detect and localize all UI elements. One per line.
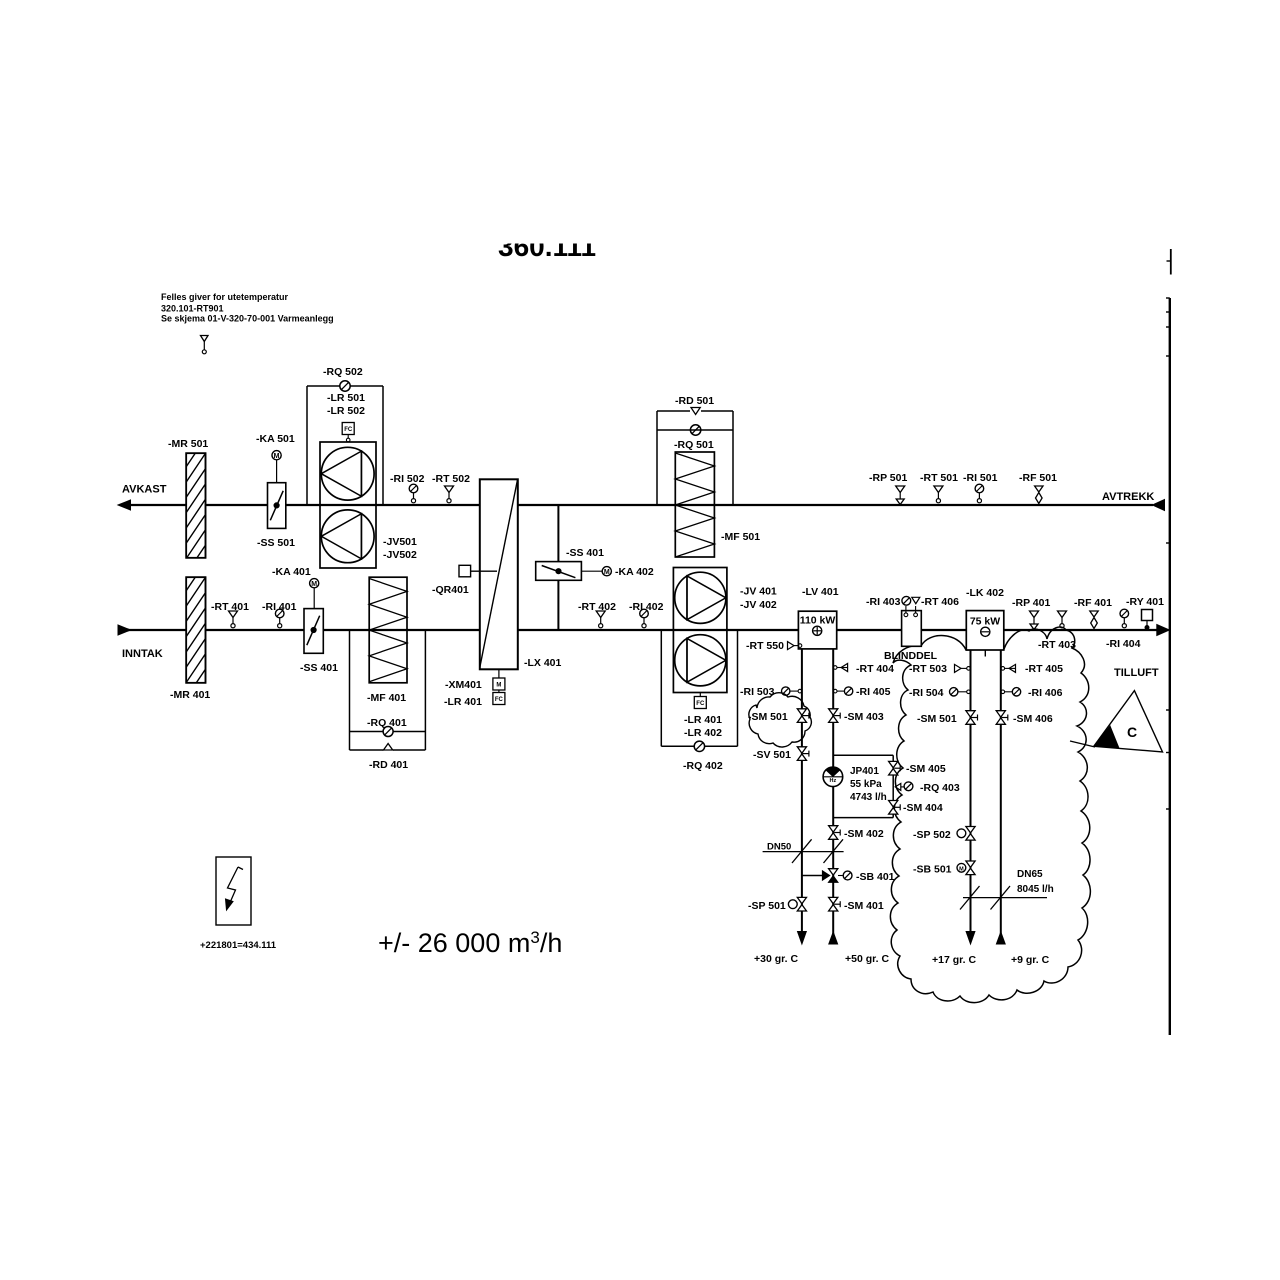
outdoor temperature sensor RT901 (201, 336, 209, 354)
sensor RI405 (833, 687, 852, 695)
damper SS501 (268, 483, 286, 529)
pump JP401 (823, 767, 843, 787)
cooling coil LK402 (966, 611, 1004, 657)
svg-text:-SV 501: -SV 501 (753, 749, 791, 761)
svg-text:-MR 401: -MR 401 (170, 689, 210, 701)
motor valve SB501 (957, 861, 975, 875)
sensor RI404 (1120, 609, 1129, 628)
sensor RT406 (912, 597, 920, 603)
svg-text:-RI 503: -RI 503 (740, 686, 775, 698)
svg-text:-RI 406: -RI 406 (1028, 687, 1063, 699)
label SM501 cooler (917, 713, 957, 725)
svg-text:-KA 402: -KA 402 (615, 566, 654, 578)
svg-text:-KA 501: -KA 501 (256, 433, 295, 445)
svg-text:-SM 404: -SM 404 (903, 802, 943, 814)
sensor RT502 (445, 486, 454, 503)
label LR502 (327, 405, 365, 417)
label JV402 (740, 599, 777, 611)
svg-text:-RT 406: -RT 406 (921, 596, 959, 608)
svg-text:-RI 501: -RI 501 (963, 472, 998, 484)
label RP401 (1012, 597, 1050, 609)
label RD401 (369, 759, 408, 771)
bypass wire (557, 505, 559, 630)
sensor RT404 (833, 664, 847, 672)
controller FC box (LR501/502) (342, 423, 354, 443)
label XM401 (445, 679, 482, 691)
sensor RT405 (1001, 664, 1016, 672)
svg-text:-LR 401: -LR 401 (444, 696, 482, 708)
quality sensor RQ501 (690, 425, 700, 435)
svg-text:-LK 402: -LK 402 (966, 587, 1004, 599)
svg-text:-RP 401: -RP 401 (1012, 597, 1050, 609)
label RT404 (856, 663, 894, 675)
label MF401 (367, 692, 406, 704)
label LR401 fans (684, 714, 722, 726)
svg-text:-RQ 403: -RQ 403 (920, 782, 960, 794)
control frame RD501 (657, 411, 733, 505)
label DN65 (1017, 869, 1043, 880)
fan JV401 (675, 572, 726, 623)
cloud around SM501 (749, 693, 812, 747)
label RI504 (909, 687, 944, 699)
label KA401 (272, 566, 311, 578)
label JV502 (383, 549, 417, 561)
svg-text:-SM 501: -SM 501 (917, 713, 957, 725)
flow arrow down +30 (798, 932, 807, 945)
svg-text:Felles giver for utetemperatur: Felles giver for utetemperatur (161, 292, 289, 302)
sensor RT501 (934, 486, 943, 503)
label RQ401 (367, 717, 407, 729)
svg-text:-LR 402: -LR 402 (684, 727, 722, 739)
sensor RQ403 (895, 782, 913, 791)
svg-text:-JV502: -JV502 (383, 549, 417, 561)
svg-text:+30 gr. C: +30 gr. C (754, 953, 798, 965)
svg-text:-MF 501: -MF 501 (721, 531, 760, 543)
svg-text:-SS 401: -SS 401 (300, 662, 338, 674)
sensor RF501 (1035, 486, 1043, 504)
label RI405 (856, 686, 891, 698)
svg-text:-SP 501: -SP 501 (748, 900, 786, 912)
filter MF401 (369, 577, 407, 683)
svg-text:M: M (604, 569, 610, 576)
valve SM501 cooler (966, 711, 978, 725)
label SP502 (913, 829, 951, 841)
actuator XM401 (493, 669, 505, 690)
valve SM404 (889, 801, 901, 815)
valve SM401 (829, 897, 841, 911)
svg-text:+17 gr. C: +17 gr. C (932, 954, 976, 966)
svg-text:-RT 404: -RT 404 (856, 663, 894, 675)
svg-text:-RT 405: -RT 405 (1025, 663, 1063, 675)
valve SM501 heater (797, 709, 809, 723)
label +9 gr. C (1011, 954, 1050, 966)
svg-text:-RT 402: -RT 402 (578, 601, 616, 613)
fan unit JV401/JV402 casing (673, 568, 727, 693)
svg-text:+50 gr. C: +50 gr. C (845, 953, 889, 965)
label RT406 (921, 596, 959, 608)
svg-text:-RT 503: -RT 503 (909, 663, 947, 675)
svg-text:-RQ 402: -RQ 402 (683, 760, 723, 772)
quality sensor RQ502 (340, 381, 350, 391)
label RI402 (629, 601, 664, 613)
label LX401 (524, 657, 562, 669)
AVTREKK arrow (1153, 500, 1165, 511)
label RI503 (740, 686, 775, 698)
label RI403 (866, 596, 901, 608)
svg-text:-RI 404: -RI 404 (1106, 638, 1141, 650)
label QR401 (432, 584, 469, 596)
label JV401 (740, 586, 777, 598)
svg-text:DN65: DN65 (1017, 869, 1043, 880)
label RQ403 (920, 782, 960, 794)
label LV401 (802, 586, 839, 598)
svg-text:FC: FC (344, 427, 353, 433)
svg-text:-RD 501: -RD 501 (675, 395, 714, 407)
label RQ502 (323, 366, 363, 378)
tap valve SP501 (788, 897, 806, 911)
svg-text:55 kPa: 55 kPa (850, 779, 882, 790)
valve SM406 (996, 711, 1008, 725)
svg-text:-RQ 502: -RQ 502 (323, 366, 363, 378)
INNTAK arrow (118, 625, 131, 635)
flow arrow up +9 (996, 932, 1005, 944)
flow arrow up +50 (829, 932, 838, 944)
svg-text:-RT 401: -RT 401 (211, 601, 249, 613)
svg-text:-RY 401: -RY 401 (1126, 596, 1164, 608)
label RI404 (1106, 638, 1141, 650)
svg-text:M: M (959, 866, 964, 872)
label INNTAK (122, 648, 163, 660)
label +221801=434.111 (200, 940, 277, 951)
svg-text:Hz: Hz (830, 778, 837, 784)
svg-text:320.101-RT901: 320.101-RT901 (161, 304, 224, 314)
label MR501 (168, 438, 208, 450)
pipe LK402 supply (970, 650, 972, 932)
label RI401 (262, 601, 297, 613)
label BLINDDEL (884, 650, 938, 662)
label LR401 (444, 696, 482, 708)
svg-text:-MR 501: -MR 501 (168, 438, 208, 450)
DN50 sizing line (763, 839, 844, 863)
wire cloud to C-symbol (1070, 741, 1095, 747)
svg-text:+221801=434.111: +221801=434.111 (200, 940, 277, 951)
heating coil LV401 (798, 611, 836, 649)
pressure relief RD501 (691, 408, 700, 415)
quality sensor RQ401 (383, 727, 393, 737)
svg-text:-LR 502: -LR 502 (327, 405, 365, 417)
svg-text:AVTREKK: AVTREKK (1102, 491, 1154, 503)
control system symbol C (1094, 691, 1163, 752)
pipe LV401 return (832, 649, 834, 944)
label SM501 heater (748, 711, 788, 723)
label JP401 (850, 766, 879, 777)
control frame RQ402 (661, 630, 737, 746)
label SB501 (913, 864, 952, 876)
svg-text:-RI 403: -RI 403 (866, 596, 901, 608)
label RT403 (1038, 639, 1076, 651)
label SM405 (906, 763, 946, 775)
label LR402 fans (684, 727, 722, 739)
label AVTREKK (1102, 491, 1154, 503)
svg-text:Se skjema 01-V-320-70-001 Varm: Se skjema 01-V-320-70-001 Varmeanlegg (161, 314, 334, 324)
label MF501 (721, 531, 760, 543)
sensor RI503 (782, 687, 802, 695)
label DN50 (767, 842, 791, 853)
svg-text:8045 l/h: 8045 l/h (1017, 884, 1054, 895)
label LR501 (327, 392, 365, 404)
label RQ402 (683, 760, 723, 772)
svg-text:FC: FC (696, 701, 705, 707)
label SB401 (856, 871, 895, 883)
svg-text:-SM 401: -SM 401 (844, 900, 884, 912)
valve SM402 (829, 826, 841, 840)
svg-text:-SM 405: -SM 405 (906, 763, 946, 775)
label +17 gr. C (932, 954, 976, 966)
TILLUFT arrow (1157, 625, 1170, 636)
svg-text:AVKAST: AVKAST (122, 484, 167, 496)
sensor RI403 (902, 596, 911, 605)
sensor RP501 (896, 486, 905, 505)
filter MF501 (675, 452, 714, 557)
svg-text:JP401: JP401 (850, 766, 879, 777)
DN65 sizing line (960, 886, 1047, 910)
label SM401 (844, 900, 884, 912)
label SS401 bypass (566, 547, 604, 559)
motor KA401 (310, 579, 319, 609)
sensor RI402 (640, 609, 649, 628)
svg-text:-SB 401: -SB 401 (856, 871, 895, 883)
svg-text:-RT 501: -RT 501 (920, 472, 958, 484)
damper MR501 (hatched) (184, 435, 208, 592)
sensor RT550 (788, 642, 802, 650)
sensor RT402 (596, 611, 605, 628)
sensor RI501 (975, 484, 984, 503)
svg-text:75 kW: 75 kW (970, 616, 1000, 628)
note: felles giver for utetemperatur (161, 292, 334, 324)
label RT550 (746, 640, 784, 652)
label 4743 l/h (850, 792, 887, 803)
svg-text:-RQ 401: -RQ 401 (367, 717, 407, 729)
svg-text:-RT 403: -RT 403 (1038, 639, 1076, 651)
svg-text:-RI 504: -RI 504 (909, 687, 944, 699)
svg-text:-SS 401: -SS 401 (566, 547, 604, 559)
valve SM405 (889, 761, 901, 775)
svg-text:-LR 401: -LR 401 (684, 714, 722, 726)
svg-text:-LV 401: -LV 401 (802, 586, 839, 598)
label KA402 (615, 566, 654, 578)
label SM403 (844, 711, 884, 723)
svg-text:M: M (496, 683, 501, 689)
svg-text:4743 l/h: 4743 l/h (850, 792, 887, 803)
label RI501 (963, 472, 998, 484)
label LK402 (966, 587, 1004, 599)
label RT502 (432, 473, 470, 485)
svg-text:-RI 401: -RI 401 (262, 601, 297, 613)
sensor RI504 (950, 688, 971, 696)
label SV501 (753, 749, 791, 761)
label SP501 (748, 900, 786, 912)
label RT405 (1025, 663, 1063, 675)
svg-text:-RI 502: -RI 502 (390, 473, 425, 485)
label RT501 (920, 472, 958, 484)
label MR401 (170, 689, 210, 701)
sensor RF401 (1090, 611, 1098, 629)
blind section BLINDDEL (902, 606, 922, 646)
label RT402 (578, 601, 616, 613)
svg-text:-KA 401: -KA 401 (272, 566, 311, 578)
label RY401 (1126, 596, 1164, 608)
svg-text:M: M (311, 581, 317, 588)
controller LR401 box (493, 690, 505, 705)
svg-text:-RD 401: -RD 401 (369, 759, 408, 771)
sensor QR401 (459, 565, 497, 577)
svg-text:-LR 501: -LR 501 (327, 392, 365, 404)
label SS401 inlet (300, 662, 338, 674)
svg-text:-SM 402: -SM 402 (844, 828, 884, 840)
label RQ501 (674, 439, 714, 451)
label +30 gr. C (754, 953, 798, 965)
title 360.111 (top-cropped) (470, 215, 650, 262)
svg-text:+9 gr. C: +9 gr. C (1011, 954, 1050, 966)
svg-text:-RF 501: -RF 501 (1019, 472, 1057, 484)
sensor RY401 (1142, 610, 1153, 630)
pipe LV401 supply (801, 649, 803, 932)
sensor RT403 (1058, 611, 1067, 628)
svg-text:-SM 406: -SM 406 (1013, 713, 1053, 725)
svg-text:-RP 501: -RP 501 (869, 472, 907, 484)
fan JV501 (321, 447, 374, 500)
sensor RT401 (229, 611, 238, 628)
svg-text:-SM 501: -SM 501 (748, 711, 788, 723)
svg-text:-JV 402: -JV 402 (740, 599, 777, 611)
label KA501 (256, 433, 295, 445)
fan unit JV501/JV502 casing (320, 442, 376, 568)
label RF501 (1019, 472, 1057, 484)
label AVKAST (122, 484, 167, 496)
svg-text:-JV 401: -JV 401 (740, 586, 777, 598)
svg-text:-RT 502: -RT 502 (432, 473, 470, 485)
damper MR401 (hatched) (184, 559, 208, 716)
svg-text:-SM 403: -SM 403 (844, 711, 884, 723)
damper SS401 (bypass) (536, 562, 582, 581)
svg-text:DN50: DN50 (767, 842, 791, 853)
motor KA402 (581, 567, 611, 576)
svg-text:INNTAK: INNTAK (122, 648, 163, 660)
heat exchanger LX401 (480, 479, 518, 669)
label +/- 26 000 m3/h (378, 928, 562, 958)
control frame RQ401/RD401 (350, 630, 426, 750)
svg-text:-JV501: -JV501 (383, 536, 417, 548)
svg-text:TILLUFT: TILLUFT (1114, 667, 1159, 679)
svg-text:-SB 501: -SB 501 (913, 864, 952, 876)
sensor RP401 (1030, 611, 1039, 630)
svg-text:110 kW: 110 kW (800, 615, 836, 627)
svg-text:-RF 401: -RF 401 (1074, 597, 1112, 609)
tap valve SP502 (957, 827, 975, 841)
label RD501 (675, 395, 714, 407)
label TILLUFT (1114, 667, 1159, 679)
label 8045 l/h (1017, 884, 1054, 895)
svg-text:-MF 401: -MF 401 (367, 692, 406, 704)
valve SM403 (829, 709, 841, 723)
svg-text:-XM401: -XM401 (445, 679, 482, 691)
label JV501 (383, 536, 417, 548)
fan JV502 (321, 510, 374, 563)
label 55 kPa (850, 779, 882, 790)
svg-text:FC: FC (495, 697, 504, 703)
svg-text:-LX 401: -LX 401 (524, 657, 562, 669)
damper SS401 inlet (304, 609, 323, 654)
flow arrow down +17 (966, 932, 975, 945)
svg-text:-RI 402: -RI 402 (629, 601, 664, 613)
label RI406 (1028, 687, 1063, 699)
label SM402 (844, 828, 884, 840)
label RT503 (909, 663, 947, 675)
sensor RI406 (1001, 688, 1021, 696)
label RT401 (211, 601, 249, 613)
sensor RI401 (275, 609, 284, 628)
svg-text:C: C (1127, 724, 1137, 740)
electrical supply box (216, 857, 251, 925)
INNTAK duct (lower airflow line) (128, 629, 1157, 631)
svg-text:-QR401: -QR401 (432, 584, 469, 596)
label +50 gr. C (845, 953, 889, 965)
AVKAST duct (upper airflow line) (128, 504, 1153, 506)
label RP501 (869, 472, 907, 484)
pressure relief RD401 (384, 744, 393, 751)
label SM406 (1013, 713, 1053, 725)
controller FC box (LR401/402) (694, 693, 706, 709)
quality sensor RQ402 (694, 741, 704, 751)
sheet edge line (1166, 249, 1171, 1035)
control frame RQ502 (307, 386, 383, 505)
sensor RI502 (409, 484, 418, 503)
svg-text:-SP 502: -SP 502 (913, 829, 951, 841)
pipe LK402 return (1000, 650, 1002, 944)
svg-text:-RT 550: -RT 550 (746, 640, 784, 652)
label RF401 (1074, 597, 1112, 609)
label SS501 (257, 537, 295, 549)
svg-text:M: M (274, 453, 280, 460)
svg-text:-SS 501: -SS 501 (257, 537, 295, 549)
svg-text:-RI 405: -RI 405 (856, 686, 891, 698)
motor KA501 (272, 451, 281, 483)
control cloud (cooling circuit) (890, 627, 1090, 1003)
sensor RT503 (955, 664, 971, 672)
pump bypass loop JP401 (833, 755, 893, 817)
svg-text:BLINDDEL: BLINDDEL (884, 650, 938, 662)
svg-text:-RQ 501: -RQ 501 (674, 439, 714, 451)
AVKAST arrow (118, 500, 131, 510)
fan JV402 (675, 635, 726, 686)
valve SV501 (797, 747, 809, 761)
label SM404 (903, 802, 943, 814)
3-way valve SB401 (802, 869, 852, 883)
label RI502 (390, 473, 425, 485)
